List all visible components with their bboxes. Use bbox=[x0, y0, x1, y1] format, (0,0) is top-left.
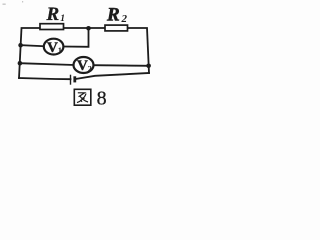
svg-text:R: R bbox=[46, 4, 60, 25]
svg-text:V: V bbox=[47, 40, 58, 56]
svg-text:2: 2 bbox=[121, 13, 128, 25]
svg-text:2: 2 bbox=[88, 63, 92, 73]
svg-text:V: V bbox=[77, 58, 88, 74]
svg-text:1: 1 bbox=[58, 45, 62, 55]
svg-text:R: R bbox=[106, 5, 120, 26]
svg-text:1: 1 bbox=[60, 14, 65, 24]
svg-text:8: 8 bbox=[97, 88, 107, 110]
